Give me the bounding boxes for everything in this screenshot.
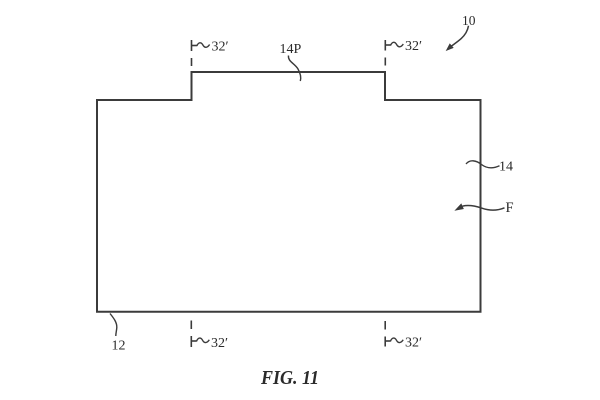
svg-text:F: F bbox=[506, 200, 514, 216]
dashed reference line 32' top-right bbox=[385, 40, 390, 66]
device outline 14 (stepped rectangle body) bbox=[97, 72, 481, 312]
svg-text:32′: 32′ bbox=[211, 336, 228, 351]
svg-text:FIG. 11: FIG. 11 bbox=[260, 368, 319, 389]
squiggle leader bottom-left 32' bbox=[197, 338, 210, 342]
squiggle leader top-left 32' bbox=[197, 43, 210, 47]
squiggle leader top-right 32' bbox=[391, 42, 404, 46]
leader for 12 bbox=[110, 314, 117, 337]
svg-text:12: 12 bbox=[112, 339, 126, 354]
squiggle leader bottom-right 32' bbox=[390, 338, 403, 342]
dashed reference line 32' top-left bbox=[192, 40, 198, 66]
wavy leader for 14 bbox=[466, 161, 500, 168]
dashed reference line 32' bottom-left bbox=[191, 321, 196, 348]
svg-text:10: 10 bbox=[462, 13, 476, 28]
svg-text:32′: 32′ bbox=[212, 40, 229, 55]
leader for 14P bbox=[288, 56, 300, 82]
svg-text:14: 14 bbox=[499, 160, 513, 175]
wavy arrow leader for F bbox=[463, 206, 505, 210]
svg-text:14P: 14P bbox=[280, 42, 302, 57]
arrow leader for 10 bbox=[451, 26, 468, 47]
dashed reference line 32' bottom-right bbox=[385, 321, 390, 347]
svg-text:32′: 32′ bbox=[405, 39, 422, 54]
svg-text:32′: 32′ bbox=[405, 336, 422, 351]
